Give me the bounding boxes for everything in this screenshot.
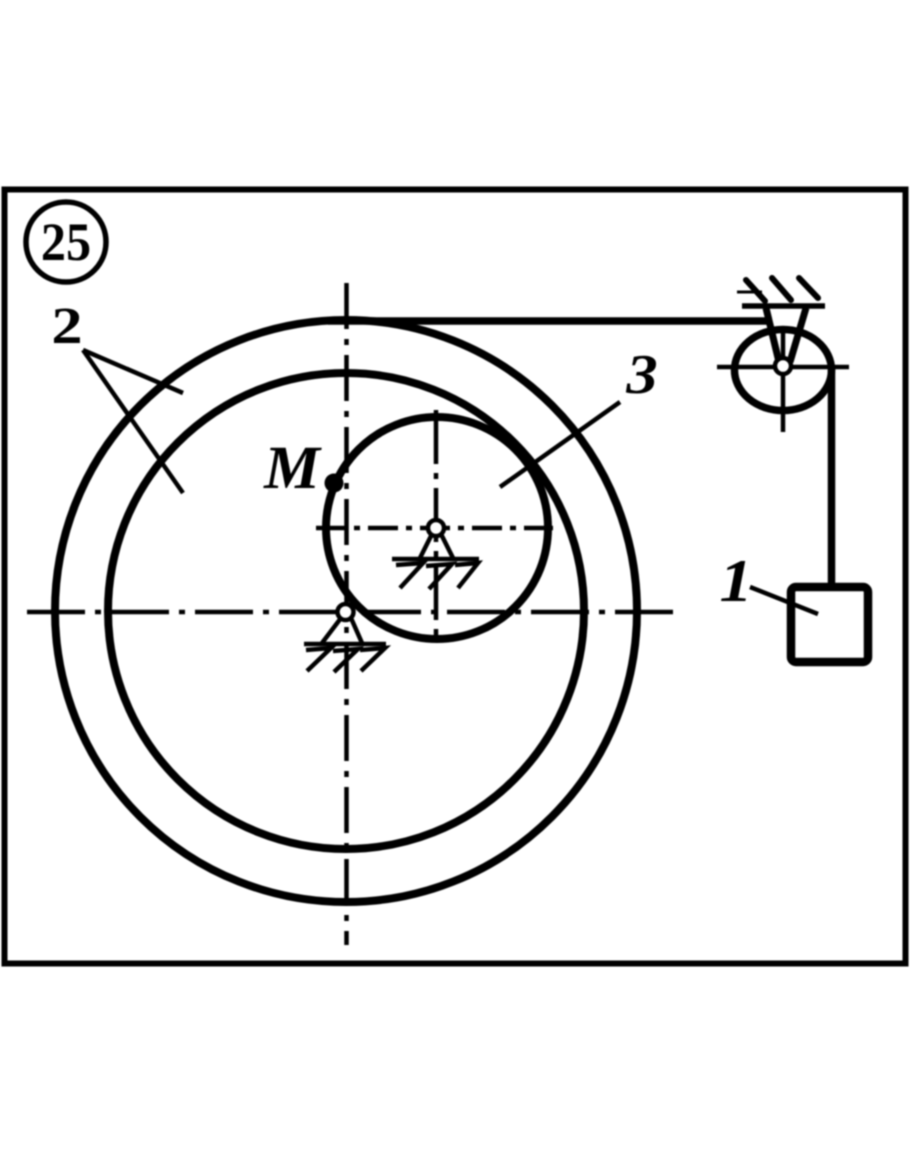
pin support of ring (center hinge) (304, 604, 386, 672)
hinge legs (420, 534, 453, 558)
pulley horizontal axis line (717, 365, 849, 370)
disc 3 circle (326, 417, 548, 639)
weight block 1 (791, 587, 868, 662)
ring 2 inner circle (108, 373, 584, 849)
pulley vertical axis line (781, 330, 786, 432)
leader line from 2 to inner circle (83, 350, 183, 493)
hatch 7 mark a (396, 563, 423, 588)
ground line (392, 557, 479, 562)
leader line from 2 to outer circle (83, 350, 183, 393)
center line: small disc horizontal axis (316, 526, 553, 531)
bracket wedge right edge (790, 308, 806, 362)
bracket wedge left edge (766, 308, 779, 362)
svg-text:2: 2 (51, 298, 82, 355)
pin support of disc (center hinge) (392, 520, 479, 589)
hatch 7 mark a (306, 648, 331, 671)
center line: ring horizontal axis (27, 610, 678, 615)
bracket hatch b (772, 278, 791, 300)
hatch 7 mark c (455, 563, 478, 588)
hatch 7 mark c (360, 648, 385, 671)
ring 2 outer circle (55, 320, 637, 902)
center line: small disc vertical axis (434, 410, 439, 642)
hatch 7 mark b (333, 649, 358, 672)
hinge pin circle (338, 604, 354, 620)
pulley bracket ceiling line (742, 303, 825, 309)
rope from pulley to weight (828, 368, 836, 585)
rope from ring top to pulley (328, 317, 772, 325)
svg-text:3: 3 (625, 343, 657, 405)
svg-text:1: 1 (720, 548, 753, 615)
svg-text:25: 25 (41, 213, 91, 272)
border frame (5, 190, 906, 964)
svg-text:M: M (263, 435, 322, 502)
leader line from 3 to disc (500, 402, 620, 487)
pulley wheel (735, 330, 832, 411)
figure number badge circle 25 (26, 202, 106, 282)
bracket sketch double line (737, 291, 762, 294)
ground line (304, 642, 386, 647)
bracket hatch a (746, 280, 765, 301)
hinge pin circle (428, 520, 444, 536)
pulley hinge pin (775, 358, 791, 374)
point M dot (325, 474, 344, 493)
leader line from 1 to weight (750, 587, 818, 614)
hinge legs (322, 618, 362, 643)
bracket hatch c (799, 278, 818, 298)
hatch 7 mark b (426, 564, 452, 589)
center line: ring vertical axis (344, 283, 349, 945)
